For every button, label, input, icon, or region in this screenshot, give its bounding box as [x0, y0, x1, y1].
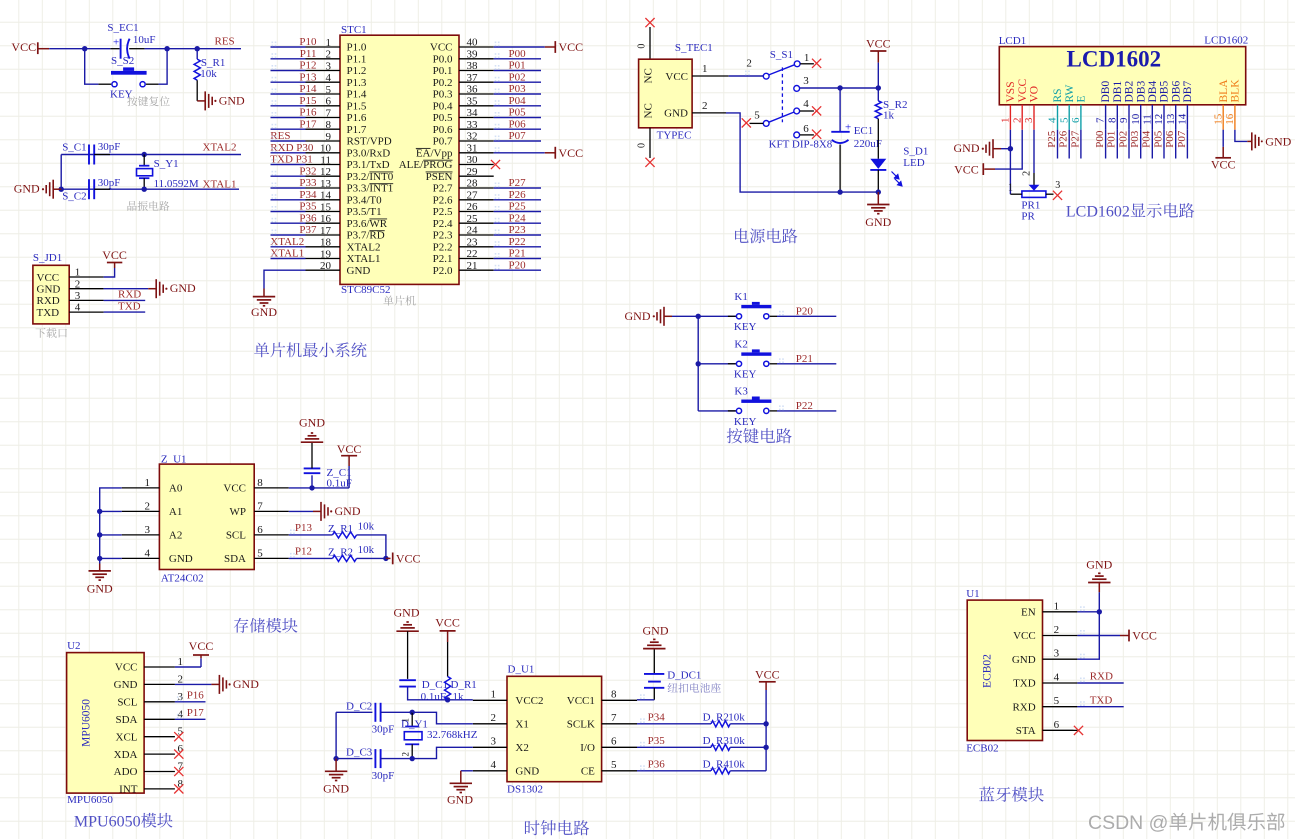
wire + net label P22 [777, 400, 836, 412]
svg-text:P10: P10 [299, 36, 317, 48]
svg-text:P02: P02 [1117, 131, 1129, 148]
svg-text:3: 3 [1054, 648, 1060, 660]
pin 3 A2 (Z_U1) [122, 524, 183, 542]
svg-text:1: 1 [1054, 600, 1060, 612]
svg-text:P15: P15 [299, 95, 317, 107]
svg-text:GND: GND [1012, 654, 1036, 666]
svg-text:XTAL2: XTAL2 [347, 241, 381, 253]
svg-text:VCC: VCC [954, 162, 979, 176]
svg-text:9: 9 [1118, 117, 1130, 123]
svg-text:P16: P16 [187, 689, 205, 701]
svg-text:40: 40 [467, 37, 479, 49]
power port VCC (reset circuit) [11, 40, 49, 54]
pin 34 P0.5 (STC1) [433, 107, 494, 124]
svg-text:4: 4 [491, 759, 497, 771]
svg-text:12: 12 [1153, 114, 1165, 125]
svg-text:ECB02: ECB02 [966, 742, 998, 754]
resistor D_R2 10k [703, 711, 746, 727]
annotation 按键复位 [127, 96, 170, 106]
svg-text:4: 4 [145, 547, 151, 559]
svg-text:VCC: VCC [559, 146, 584, 160]
wire + net label P01 (LCD) [1106, 130, 1118, 159]
svg-text:36: 36 [467, 84, 479, 96]
capacitor S_C1 30pF [62, 141, 120, 164]
svg-text:6: 6 [1054, 719, 1060, 731]
svg-text:34: 34 [467, 107, 479, 119]
svg-text:MPU6050: MPU6050 [74, 813, 141, 830]
connector S_JD1 下载口 [33, 252, 69, 324]
no-connect X (STC1 pin30) [491, 160, 500, 169]
push button K3 KEY [698, 386, 777, 428]
ground GND (S_R1) [197, 91, 245, 110]
pin 1 A0 (Z_U1) [122, 477, 183, 495]
pin 7 ADO (U2) [114, 761, 184, 779]
svg-text:D_C3: D_C3 [346, 747, 373, 759]
pin 12 P3.2/INT0 (STC1) [306, 166, 394, 183]
svg-text:RES: RES [215, 36, 235, 48]
svg-text:ADO: ADO [114, 766, 138, 778]
svg-text:P36: P36 [648, 758, 666, 770]
wire + net label P16 [271, 107, 317, 119]
svg-text:5: 5 [1054, 695, 1060, 707]
wire SDA + net label P17 [175, 707, 206, 719]
svg-text:X1: X1 [515, 719, 528, 731]
svg-text:GND: GND [394, 606, 420, 620]
pin 5 stub + X (S_S1) [742, 118, 764, 127]
power port VCC (STC1 pin40) [494, 40, 583, 54]
svg-text:P04: P04 [1141, 130, 1153, 148]
power port VCC (backlight) [1215, 157, 1231, 159]
svg-text:RXD: RXD [118, 289, 141, 301]
pin 27 P2.6 (STC1) [433, 189, 494, 206]
wire + net label P07 (STC1 right) [494, 130, 541, 142]
pin 13 P3.3/INT1 (STC1) [306, 178, 394, 195]
svg-text:25: 25 [467, 213, 479, 225]
svg-text:4: 4 [326, 72, 332, 84]
resistor Z_R2 10k [328, 544, 375, 562]
svg-text:5: 5 [326, 84, 332, 96]
svg-text:STC1: STC1 [341, 24, 367, 36]
svg-text:P20: P20 [509, 259, 527, 271]
svg-text:P22: P22 [509, 236, 526, 248]
svg-text:D_R3: D_R3 [703, 735, 730, 747]
ground GND (keys) [625, 307, 699, 326]
svg-text:TXD: TXD [1090, 694, 1113, 706]
pin 28 P2.7 (STC1) [433, 178, 494, 195]
wire VSS to GND and PR1 [1001, 130, 1010, 195]
wire + net label P34 [271, 189, 317, 201]
wire + net label P26 (LCD) [1058, 130, 1070, 159]
svg-text:16: 16 [1224, 113, 1236, 125]
svg-text:RW: RW [1064, 84, 1076, 102]
svg-text:3: 3 [326, 60, 332, 72]
svg-text:+: + [113, 36, 119, 48]
svg-text:PR: PR [1021, 210, 1035, 222]
wire + net label P24 (STC1 right) [494, 212, 541, 224]
junction (D_R3) [763, 745, 768, 750]
svg-text:DB3: DB3 [1135, 81, 1147, 103]
wire + net label P21 (STC1 right) [494, 248, 541, 260]
svg-text:EA/Vpp: EA/Vpp [416, 147, 453, 159]
no-connect X (U2 pin 8) [174, 784, 183, 793]
microcontroller STC1 STC89C52 [340, 24, 459, 296]
svg-text:P35: P35 [648, 735, 666, 747]
wire VCC1 to battery [637, 694, 654, 700]
pin 32 P0.7 (STC1) [433, 131, 494, 148]
no-connect X (S_TEC1 bottom) [637, 128, 655, 167]
svg-text:LCD1: LCD1 [999, 35, 1026, 47]
pin 33 P0.6 (STC1) [433, 119, 494, 136]
wire + net label P00 (STC1 right) [494, 48, 541, 60]
svg-text:MPU6050: MPU6050 [80, 699, 92, 747]
svg-text:17: 17 [320, 225, 332, 237]
wire + net label P04 (STC1 right) [494, 95, 541, 107]
svg-text:X2: X2 [515, 742, 528, 754]
pin 6 E (LCD1) [1070, 95, 1088, 129]
wire keys vertical bus [697, 316, 699, 411]
resistor D_R3 10k [703, 735, 746, 751]
pin 4 GND (Z_U1) [122, 547, 193, 565]
svg-text:DB6: DB6 [1170, 81, 1182, 103]
svg-text:P24: P24 [509, 212, 527, 224]
svg-text:STC89C52: STC89C52 [341, 284, 391, 296]
svg-text:GND: GND [664, 108, 688, 120]
push button K1 KEY [698, 291, 777, 333]
pin 14 P3.4/T0 (STC1) [306, 190, 383, 207]
svg-text:0.1uF: 0.1uF [421, 691, 446, 703]
wire + net label P22 (STC1 right) [494, 236, 541, 248]
pin 9 DB2 (LCD1) [1118, 81, 1136, 130]
svg-text:P22: P22 [796, 400, 813, 412]
svg-text:P05: P05 [1152, 130, 1164, 148]
junction (GND pin4) [97, 556, 102, 561]
wire D_R2 to VCC column [730, 723, 766, 725]
svg-text:XDA: XDA [114, 749, 138, 761]
potentiometer PR1 PR [1008, 171, 1060, 223]
svg-text:16: 16 [320, 213, 332, 225]
svg-text:19: 19 [320, 248, 332, 260]
svg-text:26: 26 [467, 201, 479, 213]
capacitor EC1 220uF [831, 88, 882, 192]
power port VCC (STC1 pin31) [494, 146, 583, 160]
svg-text:A1: A1 [169, 506, 182, 518]
svg-text:P23: P23 [509, 224, 527, 236]
pin 3 X2 (D_U1) [473, 735, 529, 754]
wire + net label P36 [271, 212, 317, 224]
wire + net label P27 (LCD) [1069, 130, 1081, 159]
svg-text:P17: P17 [187, 707, 205, 719]
svg-text:S_D1: S_D1 [903, 145, 928, 157]
svg-text:4: 4 [803, 98, 809, 110]
svg-text:VCC: VCC [435, 616, 460, 630]
pin 15 BLA (LCD1) [1212, 79, 1230, 130]
svg-text:S_C2: S_C2 [62, 190, 86, 202]
svg-text:4: 4 [75, 302, 81, 314]
svg-text:GND: GND [1086, 558, 1112, 572]
svg-text:RES: RES [270, 130, 290, 142]
pin 2 P1.1 (STC1) [306, 49, 367, 66]
pin 8 P1.7 (STC1) [306, 119, 367, 136]
svg-text:30pF: 30pF [372, 724, 395, 736]
svg-text:P05: P05 [509, 107, 527, 119]
svg-text:P0.2: P0.2 [433, 77, 453, 89]
pin 1 VCC (S_TEC1) [692, 63, 729, 76]
svg-text:P36: P36 [299, 212, 317, 224]
power port VCC (LCD left) [954, 162, 983, 176]
EEPROM Z_U1 AT24C02 [159, 454, 254, 585]
title 时钟电路 [525, 820, 589, 835]
svg-text:220uF: 220uF [854, 138, 882, 150]
wire S_S2 right up [159, 49, 168, 84]
wire + net label P00 (LCD) [1094, 130, 1106, 159]
pin 25 P2.4 (STC1) [433, 213, 494, 230]
pin 12 DB5 (LCD1) [1153, 81, 1171, 130]
svg-text:2: 2 [178, 673, 184, 685]
svg-text:P01: P01 [509, 60, 526, 72]
wire + net label P17 [271, 118, 317, 130]
svg-text:RST/VPD: RST/VPD [347, 136, 392, 148]
svg-text:8: 8 [257, 477, 263, 489]
ground GND (D_U1 pin4) [447, 771, 473, 807]
power port VCC (Z_U1) [337, 442, 362, 466]
svg-text:P03: P03 [509, 83, 527, 95]
svg-text:VCC: VCC [102, 248, 127, 262]
svg-text:10k: 10k [728, 735, 745, 747]
svg-text:P2.1: P2.1 [433, 253, 453, 265]
svg-text:2: 2 [1011, 117, 1023, 123]
svg-text:5: 5 [754, 110, 760, 122]
svg-text:LCD1602: LCD1602 [1067, 46, 1162, 71]
junction (A1) [97, 509, 102, 514]
junction (EN) [1097, 609, 1102, 614]
capacitor D_C3 30pF [336, 747, 412, 782]
svg-text:P01: P01 [1106, 131, 1118, 148]
svg-text:P02: P02 [509, 71, 526, 83]
svg-text:10: 10 [1130, 113, 1142, 125]
svg-text:P1.2: P1.2 [347, 65, 367, 77]
pin 2 GND (S_JD1) [37, 278, 104, 295]
svg-text:DB2: DB2 [1124, 81, 1136, 103]
svg-text:38: 38 [467, 60, 479, 72]
svg-text:RXD: RXD [37, 295, 60, 307]
svg-text:P1.5: P1.5 [347, 101, 367, 113]
svg-text:P27: P27 [509, 177, 527, 189]
svg-text:KEY: KEY [734, 369, 757, 381]
wire + net label RES [270, 130, 305, 142]
IMU U2 MPU6050 [67, 640, 145, 806]
wire GND (STC1 pin20) [264, 270, 306, 288]
svg-text:P25: P25 [1046, 130, 1058, 148]
wire + net label RXD (U1 TXD) [1077, 671, 1123, 683]
svg-text:P1.0: P1.0 [347, 42, 367, 54]
svg-text:P17: P17 [299, 118, 317, 130]
wire D_R4 to VCC column [730, 770, 766, 772]
pin 1 VCC (S_JD1) [37, 267, 104, 284]
pin 5 SDA (Z_U1) [224, 547, 289, 565]
svg-text:1: 1 [326, 37, 332, 49]
svg-text:SCLK: SCLK [567, 719, 595, 731]
title 蓝牙模块 [979, 787, 1043, 802]
resistor D_R1 1k [445, 642, 477, 703]
svg-text:P35: P35 [299, 201, 317, 213]
svg-text:P26: P26 [1058, 130, 1070, 148]
svg-text:P0.5: P0.5 [433, 112, 453, 124]
wire + net label P13 [271, 71, 317, 83]
pin 6 I/O (D_U1) [580, 735, 637, 754]
svg-text:A0: A0 [169, 483, 183, 495]
svg-text:SDA: SDA [115, 714, 137, 726]
wire + net label P20 [777, 306, 836, 318]
svg-text:31: 31 [467, 142, 478, 154]
svg-text:P2.0: P2.0 [433, 265, 453, 277]
annotation 晶振电路 [127, 201, 169, 211]
svg-text:30pF: 30pF [98, 141, 121, 153]
pin 3 SCL (U2) [117, 691, 183, 709]
pin 1 VSS (LCD1) [1000, 81, 1018, 129]
wire + net label P07 (LCD) [1176, 130, 1188, 159]
pin 2 X1 (D_U1) [473, 712, 529, 731]
svg-text:P25: P25 [509, 201, 527, 213]
wire + net label P34 [637, 711, 711, 723]
svg-text:VCC: VCC [559, 40, 584, 54]
wire EN/GND bus [1077, 592, 1099, 659]
ground GND above (U1) [1086, 558, 1112, 593]
resistor Z_R1 10k [328, 520, 375, 538]
pin 1 stub + X (S_S1) [800, 59, 821, 68]
svg-text:P2.4: P2.4 [433, 218, 453, 230]
svg-text:10: 10 [320, 143, 332, 155]
svg-text:GND: GND [347, 265, 371, 277]
svg-text:P21: P21 [796, 353, 813, 365]
svg-text:35: 35 [467, 95, 479, 107]
svg-text:P3.3/INT1: P3.3/INT1 [347, 183, 394, 195]
svg-text:A2: A2 [169, 530, 182, 542]
wire + net label P02 (LCD) [1117, 130, 1129, 159]
svg-text:P12: P12 [299, 60, 316, 72]
svg-text:13: 13 [320, 178, 332, 190]
power port VCC (S_JD1) [102, 248, 127, 277]
switch S_S1 KFT DIP-8X8 [746, 49, 832, 150]
svg-text:GND: GND [1265, 135, 1291, 149]
svg-text:5: 5 [611, 759, 617, 771]
svg-text:WP: WP [230, 506, 247, 518]
wire + net label P06 (LCD) [1164, 130, 1176, 159]
pin 8 VCC (Z_U1) [223, 477, 288, 495]
svg-text:I/O: I/O [580, 742, 595, 754]
svg-text:24: 24 [467, 225, 479, 237]
svg-text:P12: P12 [295, 545, 312, 557]
pin 26 P2.5 (STC1) [433, 201, 494, 218]
junction (S_S2 right) [164, 46, 169, 51]
svg-text:VCC: VCC [665, 71, 688, 83]
svg-text:4: 4 [1054, 672, 1060, 684]
svg-text:VO: VO [1029, 86, 1041, 103]
wire + net label P05 (LCD) [1152, 130, 1164, 159]
svg-text:14: 14 [320, 190, 332, 202]
wire left side caps [60, 155, 62, 190]
pin 18 XTAL2 (STC1) [306, 237, 381, 254]
pin 5 RXD (U1) [1012, 695, 1077, 713]
pin 14 DB7 (LCD1) [1177, 81, 1195, 130]
svg-text:SCL: SCL [117, 697, 137, 709]
svg-text:32.768kHZ: 32.768kHZ [427, 729, 478, 741]
wire XTAL2 [61, 154, 241, 156]
svg-text:0: 0 [637, 143, 648, 148]
junction (crystal top) [410, 710, 415, 715]
svg-text:2: 2 [491, 712, 497, 724]
wire + net label P26 (STC1 right) [494, 189, 541, 201]
svg-text:RS: RS [1052, 88, 1064, 102]
svg-text:20: 20 [320, 260, 332, 272]
svg-text:P0.4: P0.4 [433, 101, 453, 113]
svg-text:6: 6 [257, 524, 263, 536]
pin 6 P1.5 (STC1) [306, 96, 367, 113]
wire + net label TXD (U1 RXD) [1077, 694, 1123, 706]
svg-text:GND: GND [14, 182, 40, 196]
svg-text:D_R4: D_R4 [703, 758, 730, 770]
svg-text:DB4: DB4 [1147, 81, 1159, 103]
svg-text:LCD1602: LCD1602 [1066, 204, 1130, 221]
svg-text:TYPEC: TYPEC [657, 130, 692, 142]
svg-text:11: 11 [1141, 114, 1153, 125]
svg-text:9: 9 [326, 131, 332, 143]
wire + net label P05 (STC1 right) [494, 107, 541, 119]
svg-text:37: 37 [467, 72, 479, 84]
svg-text:8: 8 [326, 119, 332, 131]
svg-text:VCC: VCC [1132, 629, 1157, 643]
svg-text:K1: K1 [734, 291, 747, 303]
wire caps left bus [335, 712, 337, 758]
svg-text:P07: P07 [1176, 130, 1188, 148]
pin 8 DB1 (LCD1) [1106, 81, 1124, 130]
pin 1 VCC2 (D_U1) [473, 688, 544, 707]
wire VCC to S_EC1 [49, 48, 110, 50]
svg-text:DB5: DB5 [1159, 81, 1171, 103]
svg-text:23: 23 [467, 236, 479, 248]
svg-text:P1.4: P1.4 [347, 89, 367, 101]
power port VCC (U2) [175, 639, 213, 667]
pin 4 GND (D_U1) [473, 759, 539, 778]
svg-text:RXD: RXD [1090, 671, 1113, 683]
pin 2 VCC (LCD1) [1011, 79, 1029, 130]
ground GND (STC1) [251, 289, 277, 319]
pin 2 GND (S_TEC1) [692, 100, 726, 113]
wire + net label P03 (STC1 right) [494, 83, 541, 95]
pin 11 P3.1/TxD (STC1) [306, 154, 390, 171]
wire + net label P33 [271, 177, 317, 189]
ground GND (crystal) [14, 180, 61, 199]
pin 2 A1 (Z_U1) [122, 500, 183, 518]
svg-text:10k: 10k [358, 544, 375, 556]
pin 7 WP (Z_U1) [230, 500, 289, 518]
pin 7 SCLK (D_U1) [567, 712, 637, 731]
svg-text:P3.1/TxD: P3.1/TxD [347, 159, 390, 171]
svg-text:P0.0: P0.0 [433, 54, 453, 66]
svg-text:P06: P06 [1164, 130, 1176, 148]
svg-text:P04: P04 [509, 95, 527, 107]
svg-text:2: 2 [1022, 171, 1033, 176]
svg-text:2: 2 [326, 49, 332, 61]
svg-text:VCC: VCC [11, 40, 36, 54]
crystal D_Y1 32.768kHZ [401, 712, 478, 758]
svg-text:GND: GND [37, 284, 61, 296]
pin 3 VO (LCD1) [1023, 86, 1041, 130]
LED S_D1 [870, 145, 928, 192]
svg-text:3: 3 [1055, 180, 1060, 191]
svg-text:P11: P11 [300, 48, 317, 60]
svg-text:2: 2 [702, 100, 708, 112]
wire + net label RXD P30 [270, 142, 314, 154]
